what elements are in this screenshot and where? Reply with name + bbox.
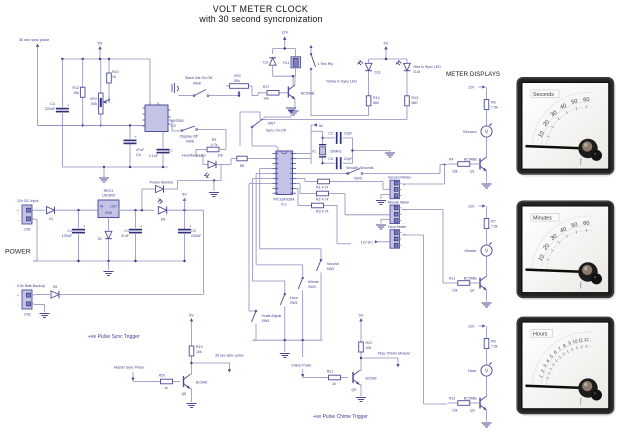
svg-text:SW7: SW7 xyxy=(268,122,276,126)
ground switch bus xyxy=(280,340,290,357)
svg-text:Slave link On-Off: Slave link On-Off xyxy=(185,76,212,80)
svg-text:C5: C5 xyxy=(191,229,196,233)
svg-text:Q1: Q1 xyxy=(470,170,475,174)
svg-text:METER DISPLAYS: METER DISPLAYS xyxy=(446,71,500,78)
svg-text:LM7555: LM7555 xyxy=(171,119,184,123)
svg-text:SW2: SW2 xyxy=(327,267,335,271)
wire riser to second conn xyxy=(402,165,445,185)
svg-text:R20: R20 xyxy=(159,374,165,378)
wire chime out xyxy=(361,357,398,359)
svg-text:SW4: SW4 xyxy=(262,319,270,323)
led D11 yellow xyxy=(326,60,381,83)
wire REG out xyxy=(119,209,154,212)
svg-text:V: V xyxy=(485,249,489,255)
svg-text:Second: Second xyxy=(327,262,339,266)
svg-text:C7: C7 xyxy=(168,149,173,153)
svg-text:Q8: Q8 xyxy=(181,392,186,396)
svg-text:LM7805: LM7805 xyxy=(102,194,115,198)
svg-text:Hour: Hour xyxy=(468,368,477,373)
wire to xtal ground xyxy=(353,151,391,153)
resistor R17 xyxy=(258,85,288,101)
svg-text:V: V xyxy=(485,369,489,375)
wire 555 top feed xyxy=(149,59,151,103)
label +ve pulse chime trigger xyxy=(313,414,368,420)
diode D2 xyxy=(98,218,112,262)
wire chime tap xyxy=(302,340,304,357)
wire switch bus xyxy=(253,339,323,341)
title text xyxy=(213,4,308,14)
node 30-sec-sync-pulse input xyxy=(19,38,49,126)
wire R10 to wiper xyxy=(100,97,109,127)
svg-text:Hour: Hour xyxy=(290,296,299,300)
svg-text:Minute: Minute xyxy=(464,248,477,253)
label +ve pulse sync trigger xyxy=(88,334,140,340)
svg-text:R6: R6 xyxy=(491,101,496,105)
svg-text:30 sec sync pulse: 30 sec sync pulse xyxy=(215,354,244,358)
svg-text:Q2: Q2 xyxy=(470,289,475,293)
svg-text:50k: 50k xyxy=(234,79,240,83)
svg-text:BC548B: BC548B xyxy=(464,158,477,162)
resistor R21 1k xyxy=(321,370,348,387)
svg-text:10k: 10k xyxy=(263,97,269,101)
svg-text:R8: R8 xyxy=(240,164,244,168)
capacitor C3 22pF xyxy=(323,157,353,169)
diode D3 flyback xyxy=(263,49,276,77)
wire power bottom bus xyxy=(33,260,186,262)
svg-text:R2 4.7k: R2 4.7k xyxy=(316,198,329,202)
svg-text:10k: 10k xyxy=(366,346,372,350)
svg-text:+: + xyxy=(17,294,19,298)
svg-text:10k: 10k xyxy=(452,409,458,413)
svg-text:30 sec sync pulse: 30 sec sync pulse xyxy=(19,38,49,42)
svg-text:R1 4.7k: R1 4.7k xyxy=(316,186,329,190)
svg-text:BC548B: BC548B xyxy=(464,397,477,401)
svg-text:BC548: BC548 xyxy=(196,381,207,385)
subtitle text xyxy=(198,14,322,24)
svg-text:D6: D6 xyxy=(218,154,223,158)
svg-text:12v DC: 12v DC xyxy=(361,241,374,245)
svg-text:D11: D11 xyxy=(375,71,381,75)
wire PIC to SW2 xyxy=(260,169,321,260)
ground minute conn xyxy=(376,220,390,230)
wire Q8 collector xyxy=(190,358,192,370)
switch SW3 minute xyxy=(298,277,319,340)
wire hour conn riser xyxy=(402,235,448,404)
switch SW1 hour xyxy=(280,293,298,340)
op IC2 timer LM7555 xyxy=(143,103,184,132)
svg-text:-: - xyxy=(404,196,405,200)
svg-text:D5: D5 xyxy=(53,285,57,289)
power 5V main xyxy=(182,192,187,230)
ground CN2 xyxy=(40,314,50,318)
svg-text:R3 4.7k: R3 4.7k xyxy=(316,210,329,214)
ground Q8 xyxy=(187,404,197,408)
power 5V Q9 xyxy=(359,313,364,337)
svg-text:+ve Pulse Chime Trigger: +ve Pulse Chime Trigger xyxy=(313,414,368,420)
wire R17 to base xyxy=(285,92,288,94)
svg-text:BC548B: BC548B xyxy=(301,92,315,96)
svg-text:Minute Meter: Minute Meter xyxy=(388,201,410,205)
svg-text:R7: R7 xyxy=(491,220,496,224)
svg-text:560: 560 xyxy=(373,101,379,105)
wire 12v dc to hour conn xyxy=(361,240,390,244)
svg-text:R11: R11 xyxy=(449,277,455,281)
svg-text:CN2: CN2 xyxy=(24,313,31,317)
svg-text:5V: 5V xyxy=(384,41,389,46)
resistor R10 1k xyxy=(107,59,119,103)
svg-text:1k: 1k xyxy=(332,382,336,386)
label master sync pulse xyxy=(114,366,144,370)
wire crystal rail B top xyxy=(311,131,324,139)
svg-text:C4: C4 xyxy=(50,102,55,106)
svg-text:Q3: Q3 xyxy=(470,409,475,413)
svg-text:X1: X1 xyxy=(312,150,316,154)
led D8 power xyxy=(158,198,204,221)
svg-text:Play ‘Chime Module’: Play ‘Chime Module’ xyxy=(378,352,411,356)
crystal X1 20MHz xyxy=(312,138,342,165)
svg-text:+: + xyxy=(404,183,406,187)
wire PIC to SW3 xyxy=(256,174,303,278)
transistor Q8 BC548 xyxy=(181,370,207,403)
svg-text:5v: 5v xyxy=(319,124,323,128)
svg-text:SW5: SW5 xyxy=(354,177,362,181)
resistor R14 560 xyxy=(366,72,379,106)
svg-text:R12: R12 xyxy=(72,86,79,90)
connector CN2 xyxy=(17,290,34,317)
svg-text:Smooth Seconds: Smooth Seconds xyxy=(346,166,374,170)
regulator REG1 LM7805 xyxy=(98,189,119,218)
svg-text:SW3: SW3 xyxy=(308,285,316,289)
svg-text:Master Sync Pulse: Master Sync Pulse xyxy=(114,366,144,370)
switch SW8 slave link xyxy=(185,76,212,97)
power 5V leds xyxy=(384,41,389,60)
svg-text:7.5k: 7.5k xyxy=(491,345,498,349)
connector hour meter xyxy=(388,225,407,250)
svg-text:POWER: POWER xyxy=(5,249,31,256)
svg-text:10k: 10k xyxy=(452,170,458,174)
svg-text:0.1uF: 0.1uF xyxy=(149,154,159,158)
svg-text:BC548: BC548 xyxy=(366,377,377,381)
svg-text:4.5v Batt Backup: 4.5v Batt Backup xyxy=(17,284,45,288)
svg-text:7.5k: 7.5k xyxy=(491,225,498,229)
power 5V osc xyxy=(98,41,103,60)
resistor R13 560 xyxy=(405,72,418,106)
svg-text:12V: 12V xyxy=(281,30,288,35)
svg-text:22pF: 22pF xyxy=(344,157,353,161)
wire master to R20 xyxy=(133,381,153,383)
capacitor C5 220uF xyxy=(178,223,202,261)
svg-text:D8: D8 xyxy=(161,218,165,222)
label chime pulse xyxy=(291,364,311,368)
resistor R8 xyxy=(221,156,272,168)
capacitor C3b 47uF xyxy=(121,210,143,261)
resistor R20 1k xyxy=(153,374,180,391)
wire Q9 collector xyxy=(360,354,362,366)
wire osc bottom bus xyxy=(62,166,168,168)
wire R14 return xyxy=(311,106,369,116)
wire CN2 minus gnd xyxy=(34,305,45,313)
svg-text:Sync On-Off: Sync On-Off xyxy=(266,129,286,133)
svg-text:47uF: 47uF xyxy=(121,234,130,238)
svg-text:IC2: IC2 xyxy=(171,124,177,128)
wire relay bottom join xyxy=(273,75,296,85)
connector minute meter xyxy=(388,201,410,225)
wire top bus xyxy=(61,58,150,60)
svg-text:100uF: 100uF xyxy=(62,234,73,238)
svg-text:BC548B: BC548B xyxy=(464,277,477,281)
wire PIC pin to SW5 xyxy=(296,173,348,175)
diode D5 xyxy=(34,285,204,298)
svg-text:Red in Sync LED: Red in Sync LED xyxy=(414,65,442,69)
wire R13 return xyxy=(240,106,407,146)
svg-text:50k: 50k xyxy=(91,102,97,106)
wire CN1 plus xyxy=(34,209,45,211)
svg-text:220uF: 220uF xyxy=(45,107,56,111)
resistor R9 4.7k xyxy=(196,138,219,152)
wire R3 to hour conn xyxy=(337,206,351,244)
svg-text:Chime Pulse: Chime Pulse xyxy=(291,364,311,368)
svg-text:60: 60 xyxy=(583,221,590,227)
wire minute conn riser xyxy=(402,210,448,284)
wire C4 branch xyxy=(61,59,63,167)
switch SW4 scale adjust xyxy=(252,310,282,340)
resistor R22 10k xyxy=(359,336,372,354)
resistor R1 4.7k xyxy=(296,179,342,190)
svg-text:5V: 5V xyxy=(189,313,194,318)
resistor R12 15k xyxy=(72,59,85,127)
capacitor C1 100uF xyxy=(62,210,86,261)
svg-text:220uF: 220uF xyxy=(191,234,202,238)
svg-text:C1: C1 xyxy=(67,229,72,233)
label play chime module xyxy=(378,352,411,356)
wire PIC to SW7 xyxy=(252,127,278,151)
svg-text:12V: 12V xyxy=(468,86,475,90)
ground osc xyxy=(99,167,109,182)
svg-text:Minutes: Minutes xyxy=(533,216,552,222)
svg-text:CN1: CN1 xyxy=(24,228,31,232)
power 12V relay xyxy=(281,30,288,49)
wire sync out xyxy=(192,362,230,364)
node chime output arrow xyxy=(396,358,399,368)
svg-text:IC1: IC1 xyxy=(281,203,287,207)
meter hours display xyxy=(517,317,616,417)
meter driver seconds group xyxy=(448,85,498,188)
svg-text:5V: 5V xyxy=(182,192,187,197)
wire SW6 to R9 xyxy=(198,130,227,150)
svg-text:4.7k: 4.7k xyxy=(211,143,218,147)
resistor R19 10k xyxy=(189,331,202,358)
svg-text:OUT: OUT xyxy=(110,205,117,209)
meter driver hours group xyxy=(448,324,498,427)
switch relay contact 1 Sec Rly xyxy=(310,45,334,116)
svg-text:1k: 1k xyxy=(112,75,116,79)
trimmer VR2 50k xyxy=(226,74,252,97)
svg-text:R14: R14 xyxy=(373,96,380,100)
svg-text:Heartbeat LED: Heartbeat LED xyxy=(182,154,206,158)
power 5V Q8 xyxy=(189,313,194,332)
wire PIC to SW4 xyxy=(249,184,273,312)
label 30 sec sync out xyxy=(215,354,244,358)
svg-text:Seconds: Seconds xyxy=(533,92,554,98)
svg-text:1k: 1k xyxy=(164,386,168,390)
svg-text:Q9: Q9 xyxy=(351,388,356,392)
wire crystal rail A xyxy=(296,125,311,164)
svg-text:D10: D10 xyxy=(414,70,421,74)
svg-text:+: + xyxy=(17,209,19,213)
led D6 heartbeat xyxy=(182,154,223,181)
svg-text:C2: C2 xyxy=(328,132,333,136)
ground Q9 xyxy=(356,398,366,402)
label POWER xyxy=(5,249,31,256)
wire heartbeat gnd run xyxy=(213,179,221,191)
svg-text:5V: 5V xyxy=(98,41,103,46)
svg-text:REG1: REG1 xyxy=(104,189,114,193)
label 12v dc input xyxy=(17,199,39,203)
capacitor C4 220uF xyxy=(45,102,70,112)
power 5v crystal xyxy=(311,123,323,128)
wire jack to SW8 xyxy=(179,95,194,97)
svg-text:+: + xyxy=(404,233,406,237)
wire PIC to SW1 xyxy=(253,179,285,294)
wire led rail xyxy=(369,58,407,63)
ground power xyxy=(104,261,114,276)
svg-text:10k: 10k xyxy=(452,289,458,293)
label battery backup xyxy=(17,284,45,288)
svg-text:12v DC Input: 12v DC Input xyxy=(17,199,39,203)
svg-text:15k: 15k xyxy=(73,91,79,95)
ground SW7 xyxy=(286,108,296,113)
resistor R3 4.7k xyxy=(296,189,337,214)
svg-text:12V: 12V xyxy=(468,325,475,329)
svg-text:R13: R13 xyxy=(412,96,419,100)
capacitor C7 0.1uF xyxy=(149,132,173,168)
relay RL1 coil xyxy=(283,49,300,77)
label METER DISPLAYS xyxy=(446,71,500,78)
svg-text:VR2: VR2 xyxy=(234,74,241,78)
svg-text:VOLT METER CLOCK: VOLT METER CLOCK xyxy=(213,4,308,14)
op U IC1 PIC16F628A xyxy=(273,151,297,207)
svg-text:Hours: Hours xyxy=(533,332,548,338)
svg-text:5V: 5V xyxy=(359,313,364,318)
capacitor C6 47uF xyxy=(124,126,145,168)
svg-text:560: 560 xyxy=(412,101,418,105)
svg-text:C6: C6 xyxy=(136,153,141,157)
wire sync input run xyxy=(38,125,146,127)
wire R2 to minute conn xyxy=(345,194,390,215)
svg-text:R22: R22 xyxy=(366,341,373,345)
svg-text:Yellow in Sync LED: Yellow in Sync LED xyxy=(326,80,357,84)
svg-text:Power Monitor: Power Monitor xyxy=(150,181,175,185)
svg-text:Scale Adjust: Scale Adjust xyxy=(262,314,282,318)
svg-text:7.5k: 7.5k xyxy=(491,106,498,110)
svg-text:-: - xyxy=(404,246,405,250)
wire VR2 to R17 xyxy=(252,93,262,96)
wire 5v net right xyxy=(203,210,205,294)
trimmer VR1 50k xyxy=(90,59,110,126)
svg-text:1 Sec Rly: 1 Sec Rly xyxy=(318,62,334,66)
svg-text:GND: GND xyxy=(105,211,113,215)
switch SW6 display off xyxy=(168,120,198,144)
led D10 red xyxy=(396,60,441,74)
capacitor C2 22pF xyxy=(323,132,353,144)
meter minutes display xyxy=(517,201,616,301)
svg-text:SW8: SW8 xyxy=(193,82,201,86)
svg-text:20MHz: 20MHz xyxy=(330,150,342,154)
svg-text:VR1: VR1 xyxy=(90,97,97,101)
wire R1 to conn xyxy=(342,182,390,190)
svg-text:RL1: RL1 xyxy=(283,61,289,65)
switch SW7 sync on-off xyxy=(251,113,291,133)
node chime pulse arrow xyxy=(301,369,304,378)
svg-text:PIC16F628A: PIC16F628A xyxy=(273,198,295,202)
meter driver minutes group xyxy=(448,204,498,307)
ground second conn xyxy=(376,195,390,205)
svg-text:R17: R17 xyxy=(263,85,270,89)
svg-text:C3: C3 xyxy=(328,157,333,161)
svg-text:R19: R19 xyxy=(196,345,203,349)
wire CN1 minus xyxy=(33,220,37,262)
svg-text:R21: R21 xyxy=(327,370,333,374)
svg-text:SW1: SW1 xyxy=(290,301,298,305)
wire relay top split xyxy=(273,47,296,49)
ground heartbeat xyxy=(209,193,219,197)
svg-text:12: 12 xyxy=(584,337,590,342)
node sync pulse output arrow xyxy=(228,363,231,373)
connector second meter xyxy=(388,176,412,201)
connector CN1 xyxy=(17,205,34,232)
wire crystal rail C xyxy=(351,138,353,163)
svg-text:R8: R8 xyxy=(491,340,496,344)
svg-text:Second: Second xyxy=(463,129,477,134)
svg-text:R10: R10 xyxy=(112,70,119,74)
svg-text:10k: 10k xyxy=(196,350,202,354)
diode D1 xyxy=(47,207,99,221)
svg-text:C4: C4 xyxy=(124,229,129,233)
wire R9 left drop xyxy=(196,150,203,165)
svg-text:SW6: SW6 xyxy=(186,140,194,144)
switch SW5 smooth seconds xyxy=(346,166,374,181)
wire chime to R21 xyxy=(303,377,321,379)
svg-text:12V: 12V xyxy=(468,205,475,209)
svg-text:47uF: 47uF xyxy=(136,148,145,152)
transistor Q9 BC548 xyxy=(351,366,376,397)
svg-text:22pF: 22pF xyxy=(344,132,353,136)
jack slave link xyxy=(172,83,179,93)
svg-text:+ve Pulse Sync Trigger: +ve Pulse Sync Trigger xyxy=(88,334,140,340)
svg-text:with 30 second syncronization: with 30 second syncronization xyxy=(198,14,322,24)
svg-text:60: 60 xyxy=(583,97,590,103)
node master sync input arrow xyxy=(131,372,134,382)
svg-text:D2: D2 xyxy=(98,237,102,241)
svg-text:V: V xyxy=(485,130,489,136)
switch SW2 second xyxy=(317,259,339,340)
wire SW8 to VR2 xyxy=(209,95,239,97)
svg-text:R12: R12 xyxy=(449,397,455,401)
diode D7 power monitor xyxy=(142,181,214,211)
meter seconds display xyxy=(517,77,616,177)
svg-text:D1: D1 xyxy=(49,217,53,221)
wire SW5 to R4 riser xyxy=(363,164,447,174)
wire osc mid run xyxy=(38,124,146,126)
svg-text:Second Meter: Second Meter xyxy=(388,176,412,180)
svg-text:Hour Meter: Hour Meter xyxy=(388,225,407,229)
svg-text:R4: R4 xyxy=(449,158,453,162)
ground relay emitter xyxy=(289,104,299,115)
ground crystal xyxy=(385,153,395,157)
svg-text:Display Off: Display Off xyxy=(180,135,198,139)
resistor R2 4.7k xyxy=(296,184,345,202)
transistor Q relay BC548B xyxy=(288,76,315,104)
